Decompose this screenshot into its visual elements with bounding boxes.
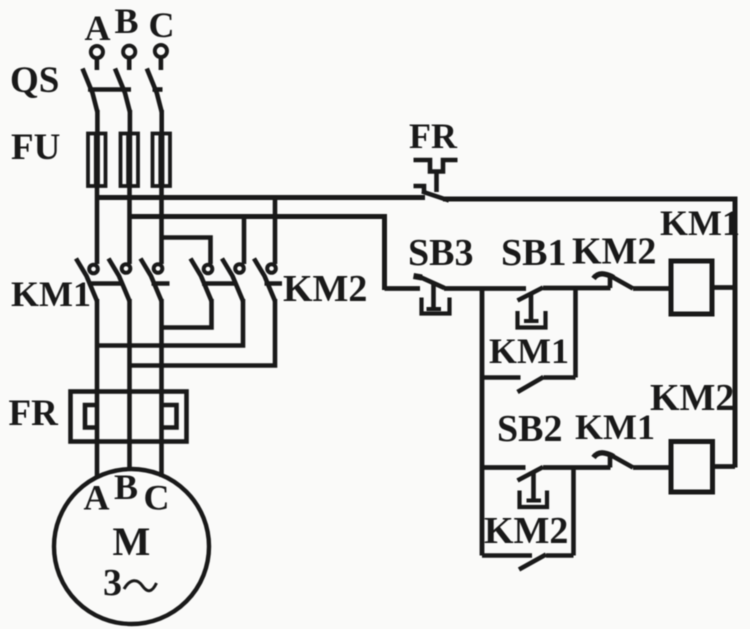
wire C blade to fuse (159, 110, 164, 135)
svg-text:3: 3 (103, 562, 122, 604)
contact KM1 auxiliary self-hold (482, 289, 576, 393)
contact KM2 auxiliary self-hold (482, 468, 574, 570)
wire SB1 to KM2 interlock segment (543, 286, 611, 291)
switch QS pole C blade (147, 69, 162, 113)
thermal relay FR heater box (71, 392, 187, 442)
svg-text:M: M (113, 519, 151, 564)
wire KM1 output 3 down to motor (159, 299, 164, 477)
svg-text:KM1: KM1 (11, 274, 91, 314)
wire KM1 output 2 down to motor (127, 299, 132, 471)
contactor KM2 main link bar (202, 281, 237, 286)
wire KM2 output 1 jog to phase C line (162, 299, 212, 328)
svg-text:A: A (84, 477, 110, 517)
fuse FU phase C wire through (158, 135, 164, 185)
svg-text:KM2: KM2 (572, 231, 656, 273)
wire B terminal stem (127, 58, 132, 70)
wire SB2 row left segment (482, 465, 526, 470)
svg-text:C: C (149, 5, 175, 45)
thermal relay FR contact blade (422, 192, 449, 201)
pushbutton SB1 start contact (518, 288, 546, 328)
svg-text:FU: FU (11, 127, 60, 168)
svg-text:SB1: SB1 (501, 232, 566, 274)
thermal relay FR right bracket (162, 405, 177, 428)
wire A terminal stem (95, 59, 100, 71)
svg-text:A: A (85, 8, 111, 48)
wire C terminal stem (159, 58, 164, 71)
thermal relay FR control contact element (414, 160, 458, 193)
wire phase B fuse to KM1 contact (127, 186, 132, 264)
svg-text:SB2: SB2 (497, 408, 562, 450)
wire KM2 interlock to KM1 coil (633, 286, 671, 291)
switch QS link dash on pole C (153, 87, 163, 92)
contactor KM2 main contact 1 (191, 259, 213, 302)
svg-text:KM1: KM1 (489, 331, 569, 371)
wire SB2 to KM1 interlock segment (543, 465, 611, 470)
wire SB3 to SB1 segment (444, 286, 526, 291)
wire phase B feed to KM2 middle contact (242, 217, 247, 265)
svg-text:FR: FR (409, 116, 458, 156)
contactor KM2 main contact 2 (222, 259, 244, 302)
motor M circle (54, 469, 209, 624)
wire B blade to fuse (128, 110, 133, 135)
switch QS link bar (88, 87, 131, 92)
fuse FU phase B body (121, 134, 139, 187)
svg-text:KM1: KM1 (660, 203, 740, 243)
wire phase A feed to KM2 third contact (273, 198, 278, 265)
wire top supply rail right of FR and right side drop (443, 199, 735, 468)
thermal relay FR left bracket (85, 405, 99, 428)
fuse FU phase C body (153, 134, 171, 187)
svg-text:KM2: KM2 (650, 377, 734, 419)
switch QS pole A blade (83, 69, 98, 113)
contact KM1 interlock NC (594, 453, 634, 468)
svg-text:FR: FR (9, 393, 60, 434)
switch QS pole B blade (115, 69, 130, 113)
pushbutton SB3 stop contact (414, 276, 450, 314)
contact KM2 interlock NC (594, 274, 634, 289)
wire phase C fuse to KM1 contact (159, 186, 164, 264)
fuse FU phase A wire through (94, 135, 100, 185)
fuse FU phase A body (88, 134, 106, 187)
wire KM1 output 1 down to motor (95, 299, 100, 477)
svg-text:B: B (115, 1, 139, 41)
wire control branch vertical (480, 289, 485, 556)
contactor KM1 main link bar (88, 281, 123, 286)
coil KM2 (671, 442, 713, 493)
contactor KM1 main contact 2 (109, 259, 131, 302)
wire KM2 output 2 jog to phase A line (97, 299, 243, 346)
fuse FU phase B wire through (126, 135, 132, 185)
svg-text:KM1: KM1 (575, 407, 655, 447)
coil KM1 (671, 261, 712, 314)
svg-text:C: C (144, 477, 170, 517)
label motor tilde (124, 581, 157, 591)
svg-text:SB3: SB3 (408, 232, 473, 274)
svg-text:QS: QS (10, 60, 59, 101)
wire A blade to fuse (95, 110, 100, 135)
contactor KM1 link dash on contact 3 (152, 281, 170, 286)
svg-text:KM2: KM2 (484, 510, 568, 552)
wire phase C bridge to KM2 first contact (162, 238, 211, 265)
wire KM2 output 3 jog to phase B line (130, 299, 276, 366)
svg-text:KM2: KM2 (283, 268, 367, 310)
contactor KM1 main contact 1 (76, 259, 98, 302)
contactor KM1 main contact 3 (141, 259, 163, 302)
svg-text:B: B (114, 467, 138, 507)
wire KM1 coil to right rail (712, 285, 735, 290)
node C terminal (155, 45, 167, 57)
wire KM2 coil to right rail (713, 464, 736, 469)
node B terminal (123, 46, 135, 58)
wire KM1 interlock to KM2 coil (633, 465, 671, 470)
contactor KM2 link dash on contact 3 (265, 281, 283, 286)
wire second supply rail from phase B down to SB3 (130, 217, 385, 291)
wire top supply rail from phase A (97, 195, 425, 200)
wire SB3 row left segment (385, 286, 421, 291)
wire phase A fuse to KM1 contact (95, 186, 100, 264)
node A terminal (91, 46, 103, 58)
pushbutton SB2 start contact (518, 467, 548, 507)
contactor KM2 main contact 3 (254, 259, 276, 302)
